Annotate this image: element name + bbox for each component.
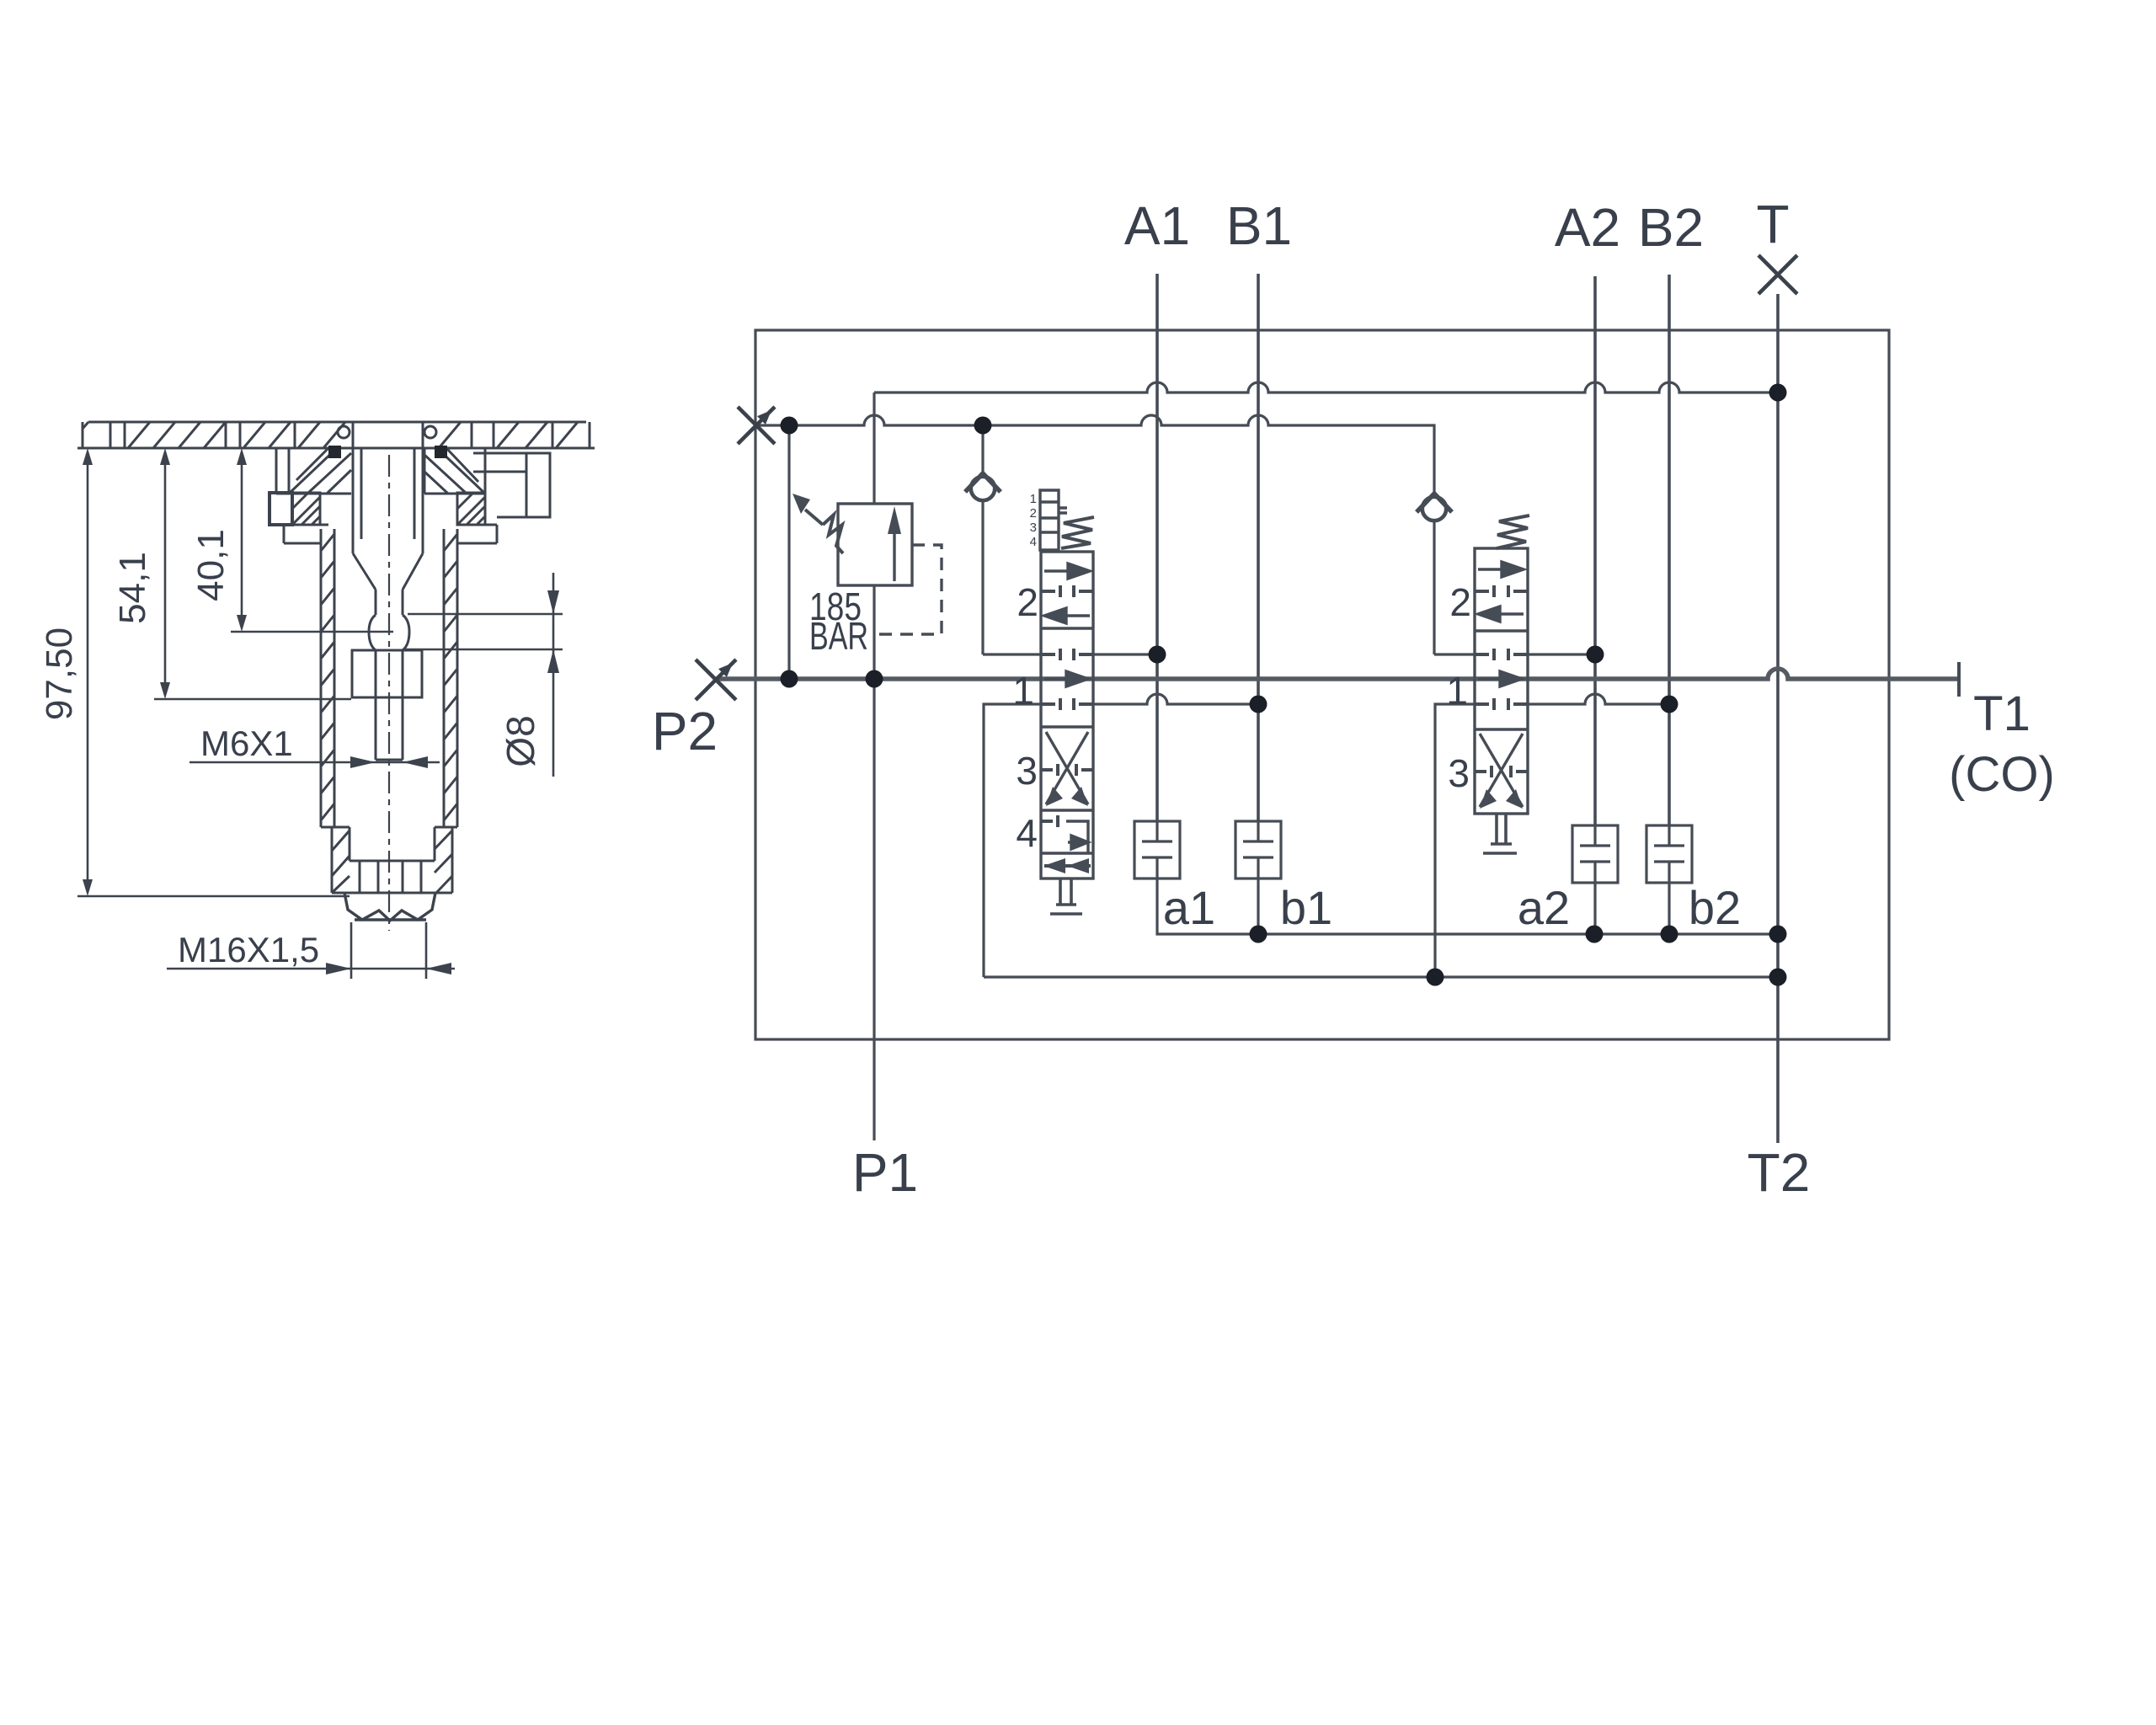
port line B1 xyxy=(1257,274,1260,821)
svg-text:a2: a2 xyxy=(1518,881,1570,934)
svg-text:1: 1 xyxy=(1446,669,1468,713)
svg-text:40,1: 40,1 xyxy=(190,529,232,601)
wire: valve2 port A feed y=777 xyxy=(1434,653,1595,655)
wire: tank header y=466 xyxy=(874,382,1778,393)
valve2 body xyxy=(1475,548,1528,814)
check valve 1 xyxy=(965,473,1001,654)
port line B2 xyxy=(1668,275,1671,825)
valve1 stem xyxy=(1050,879,1082,914)
valve1 pos2 arrows xyxy=(1044,563,1090,579)
svg-text:P1: P1 xyxy=(852,1142,918,1203)
tube wall right (hatched) xyxy=(444,529,457,827)
poppet bulge xyxy=(369,615,409,650)
junction dots xyxy=(781,384,1787,986)
step below left gland xyxy=(284,525,328,543)
port line T vertical xyxy=(1776,294,1780,1143)
relief valve RV 185 BAR xyxy=(792,494,942,634)
flange plate (section view) xyxy=(77,422,595,448)
retainer square left xyxy=(269,493,292,525)
svg-text:B1: B1 xyxy=(1226,195,1292,256)
svg-text:M16X1,5: M16X1,5 xyxy=(178,930,319,969)
svg-text:Ø8: Ø8 xyxy=(499,715,542,766)
port line A1 xyxy=(1155,274,1159,821)
valve2 pos2 arrows xyxy=(1478,562,1524,577)
pilot cap a1 xyxy=(1134,821,1180,879)
wire: pilot cap drain header y=1109 xyxy=(1157,879,1778,934)
P2 port X with arrow xyxy=(696,659,737,700)
inner rod upper xyxy=(353,422,423,590)
stub bottom edge xyxy=(332,892,452,895)
svg-text:2: 2 xyxy=(1017,580,1038,624)
VALVE1 xyxy=(1040,490,1094,914)
valve1 pos3 cross arrows xyxy=(1046,732,1088,804)
T1 port end tick xyxy=(1957,662,1961,697)
tube wall left (hatched) xyxy=(321,529,334,827)
plugged port X on left edge xyxy=(738,406,776,444)
svg-text:4: 4 xyxy=(1016,811,1038,855)
svg-text:54,1: 54,1 xyxy=(112,552,153,624)
dimension M16X1,5 xyxy=(167,922,455,979)
valve1 spring xyxy=(1061,517,1094,548)
svg-text:3: 3 xyxy=(1030,521,1037,535)
valve1 pos1 ports xyxy=(1041,649,1093,660)
wire: spool drain header y=1160 xyxy=(984,975,1778,978)
valve1 body xyxy=(1041,552,1093,879)
packing gland right (hatched) xyxy=(457,493,485,525)
inner rod mid xyxy=(376,590,403,615)
wire: relief feed riser x=1038 xyxy=(873,393,875,503)
svg-text:97,50: 97,50 xyxy=(39,628,80,720)
check valve 2 xyxy=(1417,494,1452,654)
svg-text:b1: b1 xyxy=(1280,881,1332,934)
wire: P1 riser and drop x=1038 xyxy=(873,581,875,1140)
svg-text:1: 1 xyxy=(1012,669,1034,713)
svg-text:T: T xyxy=(1756,194,1789,254)
stub inner hex xyxy=(350,861,435,893)
packing gland left (hatched) xyxy=(292,493,320,525)
wire: pilot supply y=505 xyxy=(756,415,1434,495)
dimension diameter 8 xyxy=(404,573,563,777)
svg-text:b2: b2 xyxy=(1689,881,1741,934)
valve1 pos4 xyxy=(1041,815,1058,827)
outer enclosure box xyxy=(755,330,1889,1039)
valve1 pilot block xyxy=(1040,490,1067,550)
svg-text:a1: a1 xyxy=(1163,881,1215,934)
svg-text:3: 3 xyxy=(1448,751,1470,795)
valve2 spring xyxy=(1497,515,1529,548)
pilot cap b1 xyxy=(1235,821,1281,879)
wire: check valve 1 feed xyxy=(981,425,984,474)
svg-text:(CO): (CO) xyxy=(1949,747,2055,802)
svg-text:A2: A2 xyxy=(1555,197,1620,258)
pilot cap b2 xyxy=(1646,825,1692,883)
svg-text:4: 4 xyxy=(1030,535,1037,549)
svg-text:2: 2 xyxy=(1449,580,1471,624)
rod below nut xyxy=(376,697,403,760)
main gallery P2-T1 y=806 xyxy=(716,669,1959,679)
svg-text:3: 3 xyxy=(1016,749,1038,793)
centerline xyxy=(388,455,390,931)
svg-text:2: 2 xyxy=(1030,506,1037,521)
tube step shoulders xyxy=(321,826,457,829)
seal block right xyxy=(424,426,485,494)
svg-text:T1: T1 xyxy=(1973,686,2031,741)
valve2 stem xyxy=(1483,814,1517,853)
svg-text:A1: A1 xyxy=(1124,195,1190,256)
seal block left xyxy=(276,426,351,494)
dimension M6X1 xyxy=(189,756,440,768)
svg-text:M6X1: M6X1 xyxy=(200,724,293,763)
wire: valve1 port A feed y=777 xyxy=(983,653,1157,655)
VALVE2 xyxy=(1475,515,1529,853)
port line A2 xyxy=(1593,276,1597,825)
wire: valve1 port B drain y=836 xyxy=(984,694,1258,977)
dimension 97,50 xyxy=(77,448,350,896)
bracket right xyxy=(473,453,550,517)
svg-text:T2: T2 xyxy=(1748,1142,1811,1203)
hex nut xyxy=(352,650,422,697)
T port X at top xyxy=(1758,255,1797,294)
valve2 pos3 cross arrows xyxy=(1480,734,1523,807)
crown seal bottom xyxy=(344,893,435,921)
svg-text:1: 1 xyxy=(1030,492,1037,506)
svg-text:P2: P2 xyxy=(652,701,718,761)
valve2 pos1 ports xyxy=(1475,649,1528,660)
bottom stub walls (hatched) xyxy=(332,827,452,893)
wire: valve2 port B drain y=836 xyxy=(1435,694,1669,977)
wire: pilot riser x=937 xyxy=(787,425,790,679)
dimension 54,1 xyxy=(154,448,351,699)
dimension 40,1 xyxy=(231,448,393,632)
svg-text:B2: B2 xyxy=(1638,197,1704,258)
pilot cap a2 xyxy=(1572,825,1618,883)
svg-text:BAR: BAR xyxy=(809,614,868,658)
step below right gland xyxy=(457,525,497,543)
